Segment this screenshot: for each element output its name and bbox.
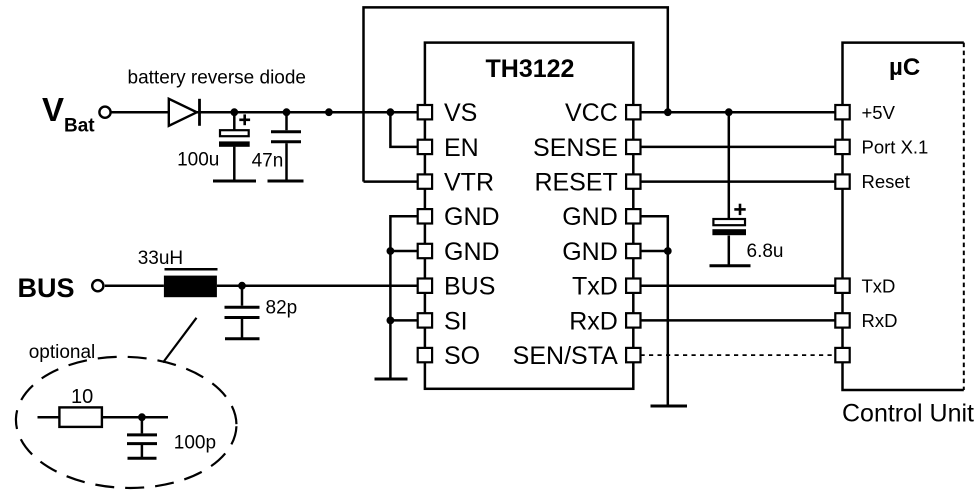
svg-text:GND: GND [444, 238, 500, 266]
svg-text:47n: 47n [252, 151, 284, 172]
svg-text:EN: EN [444, 134, 479, 162]
svg-text:TxD: TxD [572, 273, 618, 301]
svg-text:100u: 100u [177, 150, 219, 171]
svg-text:SI: SI [444, 307, 468, 335]
svg-text:VS: VS [444, 99, 477, 127]
svg-text:+5V: +5V [862, 102, 896, 123]
svg-text:TH3122: TH3122 [486, 55, 575, 83]
svg-text:Reset: Reset [862, 171, 910, 192]
svg-text:optional: optional [29, 342, 96, 363]
svg-text:V: V [42, 91, 64, 128]
svg-text:10: 10 [71, 386, 93, 408]
svg-text:6.8u: 6.8u [747, 241, 784, 262]
svg-text:SO: SO [444, 342, 480, 370]
svg-text:GND: GND [444, 203, 500, 231]
svg-text:RxD: RxD [569, 307, 618, 335]
svg-text:GND: GND [562, 203, 618, 231]
svg-text:GND: GND [562, 238, 618, 266]
svg-text:SEN/STA: SEN/STA [513, 342, 618, 370]
svg-text:33uH: 33uH [138, 248, 183, 269]
svg-text:RESET: RESET [534, 169, 617, 197]
svg-text:BUS: BUS [444, 273, 495, 301]
svg-text:battery reverse diode: battery reverse diode [128, 68, 307, 89]
svg-text:TxD: TxD [862, 275, 896, 296]
svg-text:Control Unit: Control Unit [842, 400, 974, 428]
svg-text:RxD: RxD [862, 310, 898, 331]
svg-text:VCC: VCC [565, 99, 618, 127]
svg-text:BUS: BUS [18, 273, 75, 303]
svg-text:µC: µC [889, 54, 920, 81]
svg-text:82p: 82p [266, 298, 298, 319]
svg-text:Port X.1: Port X.1 [862, 137, 929, 158]
svg-text:Bat: Bat [64, 116, 95, 137]
svg-text:100p: 100p [174, 433, 216, 454]
svg-text:VTR: VTR [444, 169, 494, 197]
svg-text:SENSE: SENSE [533, 134, 618, 162]
